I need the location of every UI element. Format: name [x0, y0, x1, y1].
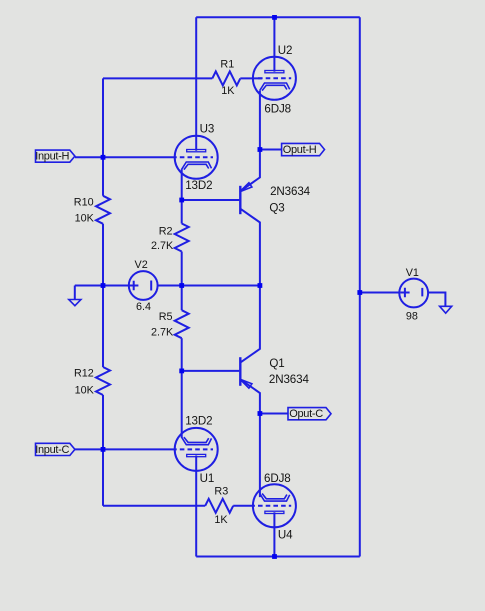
svg-text:13D2: 13D2 — [185, 415, 212, 428]
svg-text:2.7K: 2.7K — [151, 326, 174, 338]
svg-text:98: 98 — [406, 310, 418, 322]
svg-text:R12: R12 — [74, 368, 94, 380]
svg-text:Q3: Q3 — [269, 202, 284, 215]
svg-text:6DJ8: 6DJ8 — [264, 472, 291, 485]
svg-text:R3: R3 — [214, 486, 228, 498]
svg-text:U1: U1 — [200, 472, 215, 485]
svg-text:1K: 1K — [214, 514, 228, 526]
svg-text:Q1: Q1 — [269, 357, 284, 370]
svg-text:U3: U3 — [200, 122, 215, 135]
svg-text:2N3634: 2N3634 — [269, 373, 310, 386]
svg-text:2.7K: 2.7K — [151, 240, 174, 252]
svg-text:Input-H: Input-H — [35, 151, 69, 163]
svg-text:U4: U4 — [278, 528, 293, 541]
svg-text:R5: R5 — [159, 311, 173, 323]
svg-text:V2: V2 — [135, 259, 148, 271]
svg-text:10K: 10K — [75, 213, 95, 225]
svg-text:U2: U2 — [278, 44, 293, 57]
svg-text:10K: 10K — [75, 384, 95, 396]
svg-text:6.4: 6.4 — [136, 301, 151, 313]
svg-text:13D2: 13D2 — [185, 179, 212, 192]
svg-text:6DJ8: 6DJ8 — [264, 103, 291, 116]
svg-text:Oput-C: Oput-C — [289, 408, 323, 420]
svg-text:R1: R1 — [220, 59, 234, 71]
svg-text:V1: V1 — [406, 267, 419, 279]
svg-text:R10: R10 — [74, 197, 94, 209]
svg-text:Input-C: Input-C — [35, 444, 69, 456]
svg-text:Oput-H: Oput-H — [283, 144, 317, 156]
svg-text:2N3634: 2N3634 — [270, 185, 311, 198]
svg-text:R2: R2 — [159, 226, 173, 238]
svg-text:1K: 1K — [221, 85, 235, 97]
